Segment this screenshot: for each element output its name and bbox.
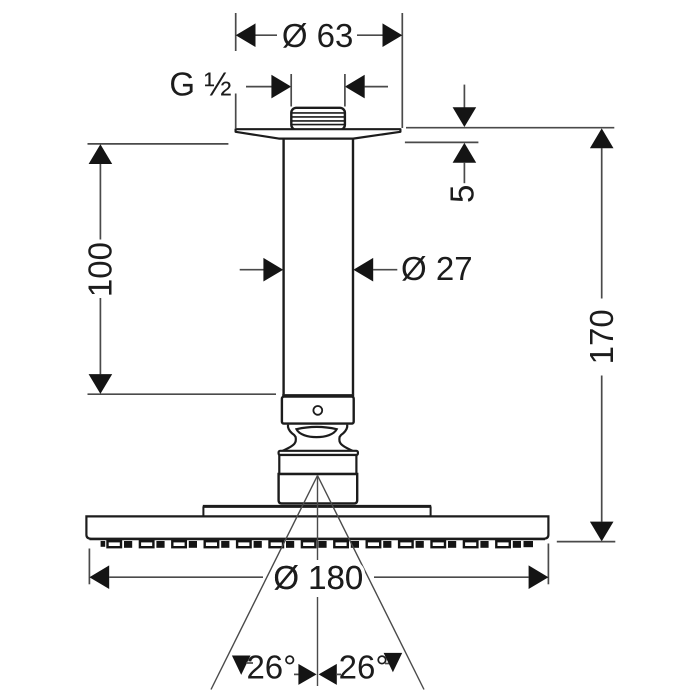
dimension 100 xyxy=(82,144,277,394)
svg-text:26°: 26° xyxy=(246,649,296,686)
svg-text:26°: 26° xyxy=(339,649,389,686)
dimension G 1/2 xyxy=(169,66,388,107)
dimension D180 xyxy=(89,544,548,597)
hub upper block xyxy=(279,455,356,474)
svg-text:100: 100 xyxy=(82,242,119,297)
dimension 5 xyxy=(405,85,614,203)
nozzle strip xyxy=(90,539,546,548)
spray angle labels 26deg xyxy=(232,649,402,686)
spray angle lines xyxy=(211,476,424,690)
top flange of spray disc xyxy=(203,506,431,516)
thread stub G1/2 xyxy=(291,108,345,130)
svg-text:Ø 63: Ø 63 xyxy=(282,17,354,54)
svg-text:Ø 180: Ø 180 xyxy=(273,559,363,596)
collar nut with hole xyxy=(282,397,354,424)
dimension D27 xyxy=(240,250,473,287)
ball joint xyxy=(283,425,353,451)
svg-text:G ½: G ½ xyxy=(169,66,231,103)
svg-text:Ø 27: Ø 27 xyxy=(401,250,473,287)
spray disc body xyxy=(86,516,548,538)
hub flange ring xyxy=(279,451,358,455)
dimension D63 xyxy=(236,13,403,128)
connection pipe xyxy=(282,139,354,396)
svg-text:170: 170 xyxy=(583,309,620,364)
svg-text:5: 5 xyxy=(444,185,481,203)
ceiling escutcheon plate xyxy=(236,129,401,138)
dimension 170 xyxy=(557,128,620,541)
hub lower block xyxy=(279,474,358,503)
